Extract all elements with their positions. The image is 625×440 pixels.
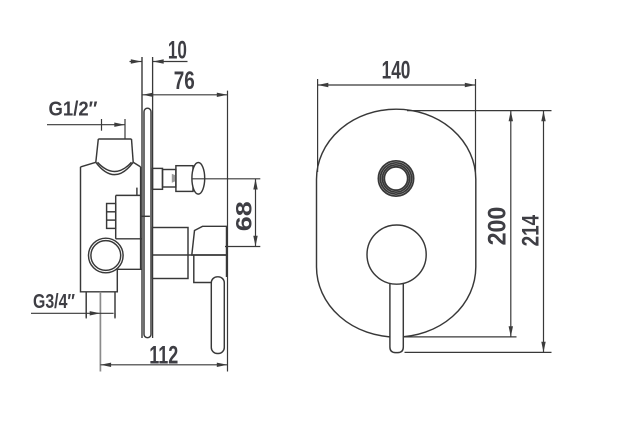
svg-text:140: 140 <box>382 57 411 85</box>
svg-text:214: 214 <box>518 214 545 246</box>
svg-text:10: 10 <box>168 36 187 64</box>
svg-text:G1/2″: G1/2″ <box>49 99 98 121</box>
svg-text:68: 68 <box>232 201 257 231</box>
svg-text:200: 200 <box>484 207 512 246</box>
svg-text:76: 76 <box>174 67 195 95</box>
svg-text:112: 112 <box>149 341 178 369</box>
svg-text:G3/4″: G3/4″ <box>33 291 75 313</box>
